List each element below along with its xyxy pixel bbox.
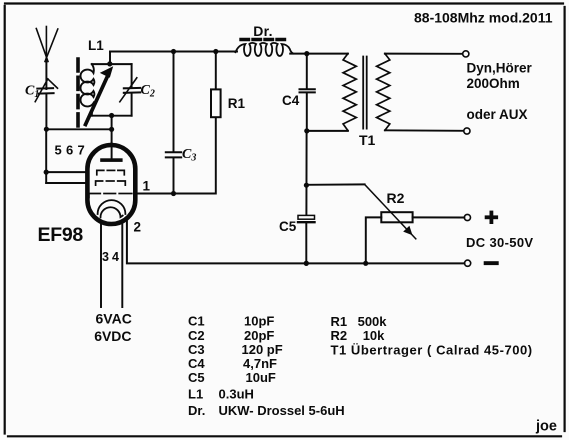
terminal +: [464, 214, 470, 220]
tube EF98 grid row 3: [89, 194, 132, 198]
svg-text:C3: C3: [188, 342, 205, 357]
label C5: [279, 219, 297, 234]
label C4: [282, 93, 300, 108]
junction C3 bottom: [171, 191, 176, 196]
svg-text:0.3uH: 0.3uH: [219, 387, 254, 402]
svg-text:DC 30-50V: DC 30-50V: [466, 235, 533, 250]
L1 arrow (variable): [86, 66, 114, 124]
svg-text:10k: 10k: [363, 328, 385, 343]
svg-text:120 pF: 120 pF: [242, 342, 283, 357]
svg-text:88-108Mhz mod.2011: 88-108Mhz mod.2011: [414, 10, 553, 26]
label Dr.: [253, 23, 273, 39]
svg-text:C5: C5: [279, 219, 297, 234]
wire to R2 wiper: [306, 183, 364, 185]
wire R2 right lead to + terminal: [413, 216, 465, 218]
junction tank bottom: [109, 113, 114, 118]
capacitor C3: [166, 52, 181, 194]
tank circuit bottom wire: [92, 115, 132, 117]
wire Dr. to transformer: [290, 53, 348, 55]
svg-text:Dr.: Dr.: [188, 403, 205, 418]
junction grid line: [109, 127, 114, 132]
junction C4 bottom: [304, 128, 309, 133]
antenna: [36, 27, 58, 62]
choke Dr. core (dashed): [241, 38, 287, 41]
svg-text:34: 34: [102, 250, 122, 264]
wire pin 1 to R1 bottom: [137, 117, 216, 193]
wire T1 secondary bottom to output: [385, 129, 464, 132]
junction pin 7 branch: [44, 170, 49, 175]
wire tank bottom to tube top grid: [111, 116, 113, 158]
svg-text:6VDC: 6VDC: [94, 328, 131, 344]
junction R1 top: [213, 49, 218, 54]
tank circuit top wire: [92, 63, 132, 65]
svg-text:6VAC: 6VAC: [96, 311, 132, 327]
tube EF98 grid row 2: [96, 181, 126, 185]
tube EF98 grid row 1: [97, 170, 125, 174]
svg-text:T1: T1: [359, 132, 376, 148]
svg-text:200Ohm: 200Ohm: [467, 76, 520, 91]
svg-text:2: 2: [134, 220, 142, 235]
svg-text:oder AUX: oder AUX: [467, 107, 528, 122]
top rail wire: [110, 51, 237, 53]
junction C1 bottom node: [44, 127, 49, 132]
inductor L1 coil: [81, 64, 95, 116]
transformer T1 primary: [343, 54, 356, 131]
svg-text:C1: C1: [188, 314, 205, 329]
capacitor C1 (trimmer): [35, 79, 57, 102]
label R2: [387, 190, 405, 206]
wire node to grid line: [46, 128, 111, 130]
svg-text:C2: C2: [188, 328, 205, 343]
resistor R1: [211, 52, 221, 118]
svg-text:L1: L1: [188, 387, 203, 402]
svg-text:C4: C4: [282, 93, 300, 108]
junction C5 bottom: [304, 261, 309, 266]
svg-text:20pF: 20pF: [244, 328, 274, 343]
svg-text:4,7nF: 4,7nF: [243, 356, 277, 371]
tube EF98 heater outer arc: [98, 200, 126, 214]
symbol plus: [485, 211, 498, 224]
junction C5 rail: [304, 261, 309, 266]
label C1: [25, 84, 39, 101]
junction R2 rail: [363, 261, 368, 266]
svg-text:R1: R1: [228, 96, 246, 111]
svg-text:R1: R1: [331, 314, 348, 329]
terminal -: [465, 260, 471, 266]
wire C1 to node: [45, 94, 47, 130]
svg-text:joe: joe: [535, 419, 557, 435]
label T1: [359, 132, 376, 148]
svg-text:C5: C5: [188, 370, 205, 385]
potentiometer R2 body: [381, 212, 412, 222]
label L1: [88, 38, 104, 53]
label C3: [182, 147, 196, 164]
junction C4 top: [304, 51, 309, 56]
tube EF98 heater inner arc: [100, 207, 122, 217]
junction tank top: [107, 61, 112, 66]
terminal output top: [463, 51, 469, 57]
heater wire pin 3: [100, 221, 102, 307]
svg-text:10pF: 10pF: [244, 314, 274, 329]
wire rail to tank top: [109, 52, 111, 65]
heater wire pin 4: [121, 221, 123, 307]
wire antenna to C1: [45, 59, 47, 89]
svg-text:R2: R2: [387, 190, 405, 206]
svg-text:C4: C4: [188, 356, 205, 371]
terminal output bottom: [464, 128, 470, 134]
svg-text:L1: L1: [88, 38, 104, 53]
wire down to grid pins: [45, 129, 47, 183]
capacitor C2 (trimmer): [120, 78, 140, 102]
transformer T1 secondary: [377, 54, 390, 131]
wire grid lead inside tube: [111, 143, 113, 159]
transformer T1 core: [363, 57, 367, 129]
wire T1 secondary top to output: [385, 53, 463, 55]
label R1: [228, 96, 246, 111]
potentiometer R2 wiper arrow: [365, 184, 416, 238]
wire C4 bottom to C5: [305, 131, 307, 215]
svg-text:567: 567: [55, 143, 90, 158]
wire pin 2 to bottom rail: [127, 222, 465, 264]
svg-text:R2: R2: [331, 328, 348, 343]
capacitor C4: [300, 54, 315, 131]
choke Dr.: [236, 43, 294, 56]
svg-text:T1 Übertrager ( Calrad 45-700): T1 Übertrager ( Calrad 45-700): [331, 342, 533, 357]
wire to tube grid row 1: [46, 171, 92, 173]
wire T1 primary bottom to C4: [307, 130, 348, 132]
tube EF98 anode bar: [100, 158, 122, 162]
svg-text:Dyn,Hörer: Dyn,Hörer: [467, 61, 533, 76]
wire to tube grid row 2: [46, 182, 90, 184]
svg-text:500k: 500k: [358, 314, 388, 329]
junction R2 wiper branch: [304, 183, 309, 188]
inductor L1 core (dashed): [76, 59, 80, 127]
svg-text:10uF: 10uF: [246, 370, 276, 385]
wire R2 left lead: [366, 217, 382, 263]
label C2: [141, 83, 155, 100]
svg-text:EF98: EF98: [38, 224, 84, 246]
capacitor C5 (electrolytic): [298, 215, 315, 263]
svg-text:Dr.: Dr.: [253, 23, 273, 39]
junction C3 top: [171, 49, 176, 54]
symbol minus: [484, 261, 499, 265]
tube EF98 envelope: [87, 145, 135, 224]
svg-text:1: 1: [143, 179, 151, 194]
svg-text:UKW- Drossel 5-6uH: UKW- Drossel 5-6uH: [219, 403, 345, 418]
tank circuit right wire: [131, 64, 133, 116]
